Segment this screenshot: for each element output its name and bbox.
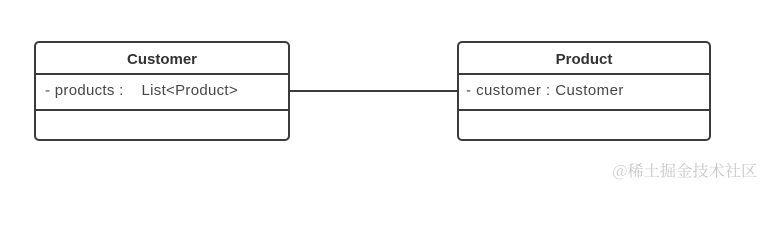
class Customer (34, 41, 290, 141)
class name Customer (36, 43, 288, 75)
class name Product (459, 43, 709, 75)
attribute - customer : Customer (459, 75, 709, 111)
watermark @稀土掘金技术社区 (613, 158, 759, 184)
class Product (457, 41, 711, 141)
attribute - products : List<Product> (36, 75, 288, 111)
methods compartment (empty) (36, 110, 288, 112)
association wire Customer-Product (290, 90, 457, 92)
methods compartment (empty) (459, 110, 709, 112)
